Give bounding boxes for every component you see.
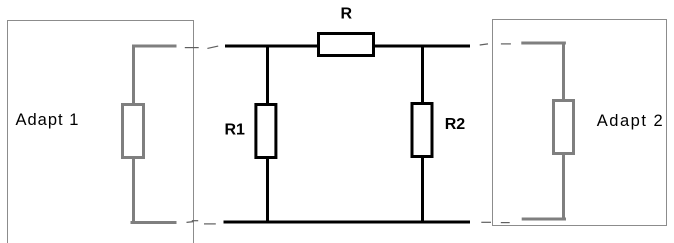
resistor R (series, horizontal) (319, 34, 374, 56)
resistor internal to Adapt 1 (123, 105, 144, 158)
dashed link wire, bottom-left dash a (187, 221, 194, 224)
dashed link wire, bottom-left dash a tick (192, 220, 198, 222)
svg-text:R: R (341, 6, 353, 23)
dashed link wire, top-left dash b (207, 46, 218, 48)
wire Adapt1 upper vertical (132, 46, 135, 104)
wire top rail (225, 45, 470, 48)
wire Adapt2 lower vertical (562, 154, 565, 219)
dashed link wire, top-left dash a (185, 47, 199, 49)
wire R2 branch (vertical) (421, 46, 424, 222)
wire Adapt1 top lead (horizontal) (132, 45, 177, 48)
resistor internal to Adapt 2 (554, 101, 574, 154)
wire Adapt2 upper vertical (562, 43, 565, 100)
dashed link wire, bottom-right dash a (481, 221, 491, 223)
wire Adapt2 top lead (horizontal) (521, 42, 566, 45)
dashed link wire, top-right dash b (501, 43, 511, 45)
resistor R2 (shunt right) (412, 104, 432, 157)
wire Adapt1 bottom lead (horizontal) (131, 221, 177, 224)
svg-text:Adapt 1: Adapt 1 (16, 111, 80, 129)
dashed link wire, bottom-left dash b (204, 223, 216, 225)
wire Adapt1 lower vertical (132, 158, 135, 223)
svg-text:R1: R1 (225, 122, 246, 139)
dashed link wire, top-right dash a (480, 44, 488, 45)
wire Adapt2 bottom lead (horizontal) (522, 218, 566, 221)
wire bottom rail (224, 221, 471, 224)
svg-text:R2: R2 (445, 116, 466, 133)
svg-text:Adapt 2: Adapt 2 (597, 112, 664, 130)
box Adapt 2 (enclosure) (493, 20, 667, 226)
resistor R1 (shunt left) (256, 105, 276, 158)
box Adapt 1 (enclosure, bottom clipped) (8, 21, 194, 243)
wire R1 branch (vertical) (266, 46, 269, 222)
dashed link wire, bottom-right dash b (501, 222, 510, 224)
